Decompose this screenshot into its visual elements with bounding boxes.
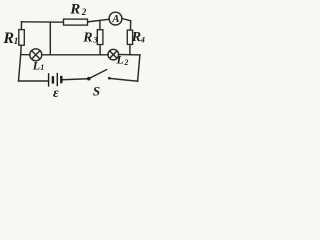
svg-text:4: 4 [140,34,145,44]
svg-text:3: 3 [92,34,98,44]
svg-text:L: L [116,53,124,67]
svg-text:L: L [32,58,40,72]
svg-text:R: R [69,2,80,18]
svg-text:ε: ε [53,86,59,98]
svg-text:A: A [111,13,119,25]
svg-text:1: 1 [14,37,19,47]
svg-text:R: R [131,30,141,45]
svg-text:2: 2 [123,58,128,67]
svg-text:S: S [93,84,100,99]
svg-text:R: R [2,30,14,47]
svg-text:R: R [82,30,92,45]
svg-text:1: 1 [40,63,44,72]
svg-text:2: 2 [81,7,87,17]
